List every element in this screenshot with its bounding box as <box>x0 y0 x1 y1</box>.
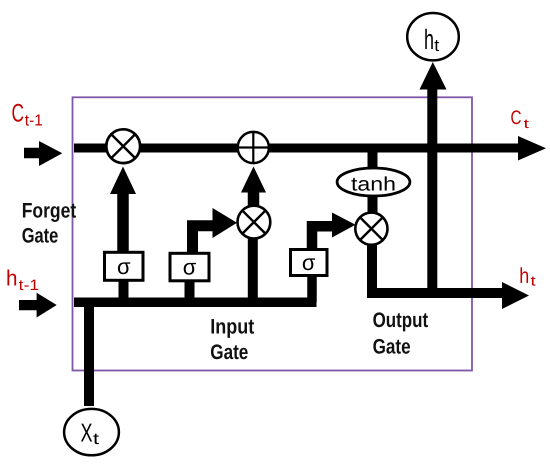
wire: forget riser (sigma1 to multiply) <box>110 167 136 252</box>
wire: main cell-state rail (Ct-1 to Ct) <box>74 136 546 161</box>
purple cell boundary <box>73 97 473 370</box>
svg-text:σ: σ <box>183 255 197 280</box>
wire: input-multiply bottom connector <box>248 238 258 302</box>
svg-text:Gate: Gate <box>210 341 248 364</box>
svg-text:X: X <box>81 418 93 448</box>
adder node <box>238 132 269 163</box>
svg-text:h: h <box>6 266 18 291</box>
sigma box 2 (input gate) <box>170 253 209 280</box>
multiply node output gate <box>355 213 387 245</box>
svg-text:t: t <box>434 36 439 55</box>
svg-text:Gate: Gate <box>373 336 411 359</box>
label Forget Gate <box>22 200 77 248</box>
wire: input-multiply riser to adder <box>241 167 266 207</box>
multiply node forget gate <box>106 129 140 163</box>
wire: right bottom rail (output to ht) <box>367 282 529 309</box>
svg-text:tanh: tanh <box>351 173 396 195</box>
wire: rail to tanh connector <box>368 150 378 168</box>
wire: sigma3 bottom connector <box>307 276 317 302</box>
tanh ellipse <box>337 168 410 196</box>
svg-text:h: h <box>519 264 529 288</box>
svg-text:C: C <box>12 100 25 128</box>
svg-text:Forget: Forget <box>22 200 77 223</box>
sigma box 1 (forget gate) <box>105 252 144 280</box>
svg-text:t: t <box>93 431 100 448</box>
sigma box 3 (output gate) <box>291 250 328 276</box>
svg-text:σ: σ <box>302 250 316 275</box>
Xt input circle (bottom) <box>64 409 119 455</box>
label Output Gate <box>373 309 429 359</box>
block arrow Ct-1 input <box>24 141 62 166</box>
wire: sigma3 elbow arrow into output multiply <box>312 213 356 250</box>
label Input Gate <box>210 316 254 364</box>
svg-text:h: h <box>424 24 434 55</box>
wire: left bottom rail (h t-1 input rail) <box>74 298 317 308</box>
node label ht-1 (red) <box>6 266 39 295</box>
node label Ct-1 (red) <box>12 100 43 130</box>
multiply node input gate <box>238 206 271 239</box>
svg-text:σ: σ <box>117 254 131 279</box>
wire: output-multiply down connector <box>367 243 377 294</box>
svg-text:Input: Input <box>210 316 254 339</box>
ht output circle (top) <box>407 13 459 60</box>
wire: sigma2 bottom connector <box>185 282 195 303</box>
svg-text:t: t <box>531 273 536 289</box>
svg-text:t-1: t-1 <box>25 113 43 130</box>
wire: tanh to output-multiply connector <box>368 196 378 213</box>
svg-text:C: C <box>511 107 522 129</box>
wire: ht riser with arrowhead into ht circle <box>420 62 447 296</box>
svg-text:t: t <box>524 116 530 131</box>
block arrow ht-1 input <box>19 293 57 318</box>
svg-text:Output: Output <box>373 309 429 332</box>
wire: sigma2 elbow arrow into input multiply <box>193 208 238 252</box>
wire: Xt drop line <box>84 305 94 406</box>
svg-text:Gate: Gate <box>22 224 59 247</box>
svg-text:t-1: t-1 <box>19 277 40 294</box>
node label Ct (red) <box>511 107 530 131</box>
node label ht (red) <box>519 264 536 288</box>
wire: sigma1 bottom connector <box>119 282 129 303</box>
